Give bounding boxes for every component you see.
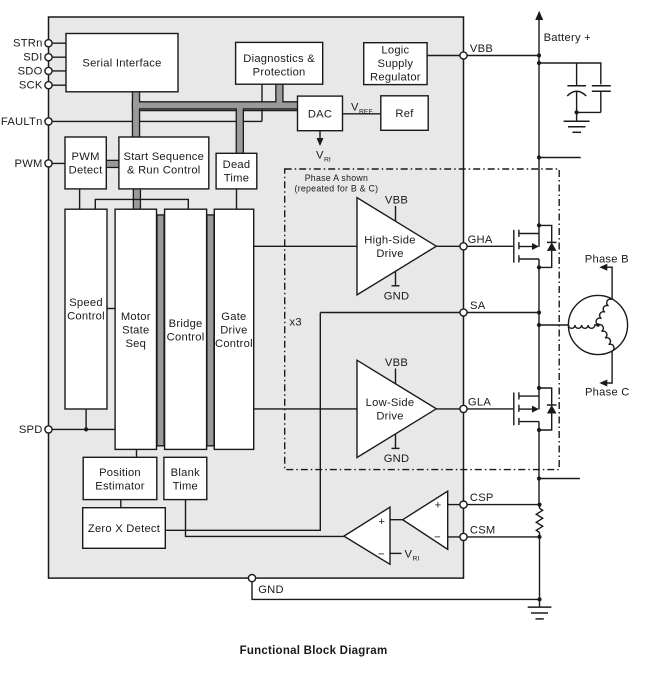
bus serial interface down xyxy=(132,92,140,137)
wire SDO xyxy=(49,70,67,72)
diode D2 (body diode Q2) xyxy=(539,388,557,430)
bus horizontal main xyxy=(132,101,298,109)
svg-text:VBB: VBB xyxy=(385,357,408,369)
wire FAULTn riser to Diagnostics xyxy=(261,84,263,121)
box Ref xyxy=(381,96,428,131)
pin SDO xyxy=(18,65,53,77)
label phase A shown xyxy=(295,173,379,194)
node GND junction xyxy=(537,597,541,601)
bus pwm-detect to start-seq (fill) xyxy=(105,161,121,167)
svg-text:Motor: Motor xyxy=(121,311,151,323)
box logic supply regulator xyxy=(364,43,427,85)
svg-text:Bridge: Bridge xyxy=(169,318,203,330)
svg-text:SCK: SCK xyxy=(19,80,43,92)
svg-text:V: V xyxy=(351,102,359,114)
svg-text:Drive: Drive xyxy=(220,325,247,337)
pin GND xyxy=(248,575,283,597)
bus diagnostics down (fill) xyxy=(276,83,282,107)
bus pwm-detect to start-seq xyxy=(106,160,119,168)
svg-text:Phase B: Phase B xyxy=(585,254,629,266)
pin CSM xyxy=(460,525,496,541)
pin GHA xyxy=(460,234,493,250)
node SPD junction xyxy=(84,427,88,431)
box PWM detect xyxy=(65,137,106,189)
wire phase C stub xyxy=(539,478,580,480)
wire STRn xyxy=(49,42,67,44)
svg-text:Battery +: Battery + xyxy=(544,32,591,44)
wire gate-drive to low-side input xyxy=(254,408,357,410)
svg-text:Drive: Drive xyxy=(376,248,403,260)
svg-text:+: + xyxy=(435,500,442,512)
wire PWM xyxy=(49,162,66,164)
wire SDI xyxy=(49,56,67,58)
bus motor-state to bridge (fill) xyxy=(158,216,164,446)
bus bridge to gate-drive (fill) xyxy=(208,216,214,446)
wire DAC to Ref xyxy=(343,113,381,115)
IC body U1 xyxy=(49,17,464,578)
node CSP junction xyxy=(537,503,541,507)
wire speed-control to motor-state xyxy=(107,308,115,310)
wire blank-time to comparator output xyxy=(186,500,344,537)
box position estimator xyxy=(83,457,157,499)
svg-text:REF: REF xyxy=(359,108,373,115)
svg-text:CSP: CSP xyxy=(470,492,494,504)
node Q1 drain xyxy=(537,223,541,227)
svg-text:Functional Block Diagram: Functional Block Diagram xyxy=(240,645,388,657)
label VRI under DAC xyxy=(316,150,331,164)
svg-text:Drive: Drive xyxy=(376,411,403,423)
svg-text:Phase C: Phase C xyxy=(585,386,630,398)
svg-text:V: V xyxy=(405,549,413,561)
wire phase C arrow xyxy=(585,351,630,398)
svg-text:GND: GND xyxy=(258,584,284,596)
node capacitor ground junction xyxy=(575,110,579,114)
bus diagnostics down xyxy=(275,84,283,105)
bus dead-time down xyxy=(236,105,244,153)
svg-text:Zero X Detect: Zero X Detect xyxy=(88,523,161,535)
svg-text:Control: Control xyxy=(67,311,105,323)
wire zero-x to SA sense xyxy=(165,313,320,531)
transistor Q2 (low-side MOSFET) xyxy=(514,392,539,425)
svg-text:Gate: Gate xyxy=(221,311,246,323)
svg-text:Diagnostics &: Diagnostics & xyxy=(243,53,315,65)
low-side VBB stub xyxy=(385,357,408,384)
high-side GND stub xyxy=(384,271,410,302)
wire serial-to-DAC thin line xyxy=(140,110,297,112)
wire SPD xyxy=(49,428,116,430)
pin CSP xyxy=(460,492,494,508)
node cap branch junction xyxy=(537,61,541,65)
wire SCK xyxy=(49,84,67,86)
wire FAULTn net xyxy=(49,120,263,122)
pin GLA xyxy=(460,397,491,413)
winding A xyxy=(568,325,598,328)
svg-text:CSM: CSM xyxy=(470,525,496,537)
svg-text:Logic: Logic xyxy=(381,44,409,56)
wire rail to motor xyxy=(539,324,568,326)
dashed box phase A xyxy=(285,169,560,470)
wire dead-time to gate-drive xyxy=(236,189,238,209)
svg-text:Position: Position xyxy=(99,467,141,479)
node SA junction xyxy=(537,310,541,314)
bus start-seq to motor-state xyxy=(133,189,141,209)
svg-text:−: − xyxy=(378,549,385,561)
wire CSM net xyxy=(448,536,540,538)
wire capacitor branch xyxy=(539,63,601,84)
svg-text:High-Side: High-Side xyxy=(364,235,415,247)
motor M1 xyxy=(568,295,627,354)
wire CSP net xyxy=(448,504,540,506)
svg-text:Seq: Seq xyxy=(125,338,146,350)
capacitor C2 xyxy=(577,86,611,113)
svg-text:SDI: SDI xyxy=(23,52,42,64)
comparator U2 (current sense) xyxy=(403,491,448,549)
pin SDI xyxy=(23,52,52,64)
bus horizontal main (fill) xyxy=(133,102,299,108)
svg-text:SA: SA xyxy=(470,300,486,312)
box diagnostics & protection xyxy=(236,42,323,84)
svg-text:VBB: VBB xyxy=(470,43,493,55)
box gate drive control xyxy=(214,209,253,449)
box start sequence & run control xyxy=(119,137,209,189)
diode D1 (body diode Q1) xyxy=(539,225,557,267)
svg-text:x3: x3 xyxy=(290,317,302,329)
svg-text:DAC: DAC xyxy=(308,108,332,120)
svg-text:Time: Time xyxy=(224,173,249,185)
wire motor-state to position-estimator xyxy=(136,449,138,457)
svg-text:SPD: SPD xyxy=(19,424,43,436)
op-amp low-side drive xyxy=(357,360,436,457)
svg-text:Detect: Detect xyxy=(69,165,103,177)
svg-text:GHA: GHA xyxy=(468,234,493,246)
svg-text:+: + xyxy=(378,516,385,528)
svg-text:Control: Control xyxy=(167,331,205,343)
capacitor C1 (bulk electrolytic) xyxy=(567,63,586,112)
svg-text:Protection: Protection xyxy=(253,67,306,79)
svg-text:Control: Control xyxy=(215,338,253,350)
wire comparator1 to amp2 xyxy=(390,519,403,521)
svg-text:Low-Side: Low-Side xyxy=(366,397,415,409)
pin VBB xyxy=(460,43,493,59)
node Q2 drain xyxy=(537,386,541,390)
svg-text:& Run Control: & Run Control xyxy=(127,165,201,177)
svg-text:Blank: Blank xyxy=(171,467,200,479)
box zero x detect xyxy=(83,508,166,549)
svg-text:State: State xyxy=(122,325,149,337)
svg-text:STRn: STRn xyxy=(13,38,43,50)
node motor feed junction xyxy=(537,323,541,327)
ground (capacitors) xyxy=(564,112,590,132)
wire phase B arrow xyxy=(585,254,629,300)
pin SPD xyxy=(19,424,52,436)
pin SCK xyxy=(19,80,52,92)
wire gate-drive to high-side input xyxy=(254,245,357,247)
svg-text:Estimator: Estimator xyxy=(95,480,145,492)
svg-text:GND: GND xyxy=(384,291,410,303)
label VREF xyxy=(351,102,373,116)
svg-text:GLA: GLA xyxy=(468,397,491,409)
ground (main) xyxy=(528,599,552,619)
svg-text:RI: RI xyxy=(413,555,420,562)
node Q1 source xyxy=(537,265,541,269)
pin FAULTn xyxy=(1,116,52,128)
bus bridge to gate-drive xyxy=(206,214,214,446)
node CSM junction xyxy=(537,535,541,539)
svg-text:RI: RI xyxy=(324,156,331,163)
svg-text:Dead: Dead xyxy=(223,159,251,171)
svg-text:V: V xyxy=(316,150,324,162)
box DAC xyxy=(298,96,343,131)
label VRI at amp xyxy=(405,549,420,563)
wire GLA net xyxy=(436,408,513,410)
svg-text:PWM: PWM xyxy=(72,151,100,163)
node VBB junction xyxy=(537,53,541,57)
wire start-seq branch to speed and bridge xyxy=(95,199,188,209)
box dead time xyxy=(216,153,257,189)
bus motor-state to bridge xyxy=(156,214,164,446)
svg-text:VBB: VBB xyxy=(385,195,408,207)
box speed control xyxy=(65,209,107,409)
svg-text:PWM: PWM xyxy=(15,158,43,170)
svg-text:Phase A shown: Phase A shown xyxy=(305,173,368,183)
node motor center xyxy=(596,323,600,327)
winding C xyxy=(598,325,614,352)
box blank time xyxy=(164,457,207,499)
svg-text:(repeated for B & C): (repeated for B & C) xyxy=(295,184,379,194)
wire position-estimator to zero-x xyxy=(120,500,122,508)
wire speed-control to SPD xyxy=(85,409,87,429)
node Q2 source xyxy=(537,428,541,432)
battery arrow xyxy=(535,11,543,20)
svg-text:Regulator: Regulator xyxy=(370,72,421,84)
resistor R1 (sense) xyxy=(536,508,542,532)
svg-text:−: − xyxy=(434,531,441,543)
low-side GND stub xyxy=(384,434,410,465)
wire GHA net xyxy=(436,245,513,247)
wire logic-supply to VBB xyxy=(427,55,539,57)
svg-text:FAULTn: FAULTn xyxy=(1,116,43,128)
wire phase B stub xyxy=(539,157,581,159)
svg-text:GND: GND xyxy=(384,453,410,465)
transistor Q1 (high-side MOSFET) xyxy=(514,230,539,263)
box motor state seq xyxy=(115,209,156,449)
bus dead-time down (fill) xyxy=(237,104,243,156)
wire pwm-detect to speed-control xyxy=(79,189,81,209)
wire GND pin down and right xyxy=(252,578,540,599)
svg-text:SDO: SDO xyxy=(18,65,43,77)
node phase B stub junction xyxy=(537,155,541,159)
DAC output arrow xyxy=(317,131,324,146)
box bridge control xyxy=(165,209,207,449)
battery rail xyxy=(538,19,541,599)
wire SA net xyxy=(320,312,539,314)
svg-text:Ref: Ref xyxy=(395,108,414,120)
bus serial interface down (fill) xyxy=(133,90,139,139)
pin PWM xyxy=(15,158,53,170)
high-side VBB stub xyxy=(385,195,408,222)
op-amp U3 (amplifier) xyxy=(344,507,390,564)
svg-text:Start Sequence: Start Sequence xyxy=(123,151,204,163)
op-amp high-side drive xyxy=(357,198,436,295)
wire amp2 minus to VRI xyxy=(390,552,402,554)
node phase C stub junction xyxy=(537,476,541,480)
pin SA xyxy=(460,300,486,316)
svg-text:Speed: Speed xyxy=(69,297,103,309)
svg-text:Time: Time xyxy=(173,480,198,492)
pin STRn xyxy=(13,38,52,50)
winding B xyxy=(596,299,612,325)
bus start-seq to motor-state (fill) xyxy=(134,188,140,212)
svg-text:Supply: Supply xyxy=(378,58,414,70)
box serial interface xyxy=(66,34,178,92)
svg-text:Serial Interface: Serial Interface xyxy=(82,58,161,70)
